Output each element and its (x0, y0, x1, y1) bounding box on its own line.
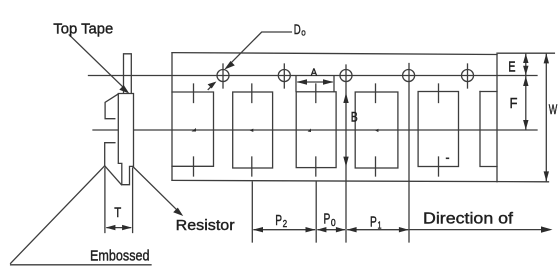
P0 arrow left head (317, 227, 327, 232)
pocket 3 center ticks (315, 84, 317, 103)
tape right edge (496, 55, 498, 182)
P2 arrow left head (253, 227, 263, 232)
P2 arrow right head (306, 227, 316, 232)
small arrowhead pointing at sprocket hole (208, 82, 217, 89)
small arrow pointing at sprocket hole (208, 86, 211, 89)
pocket 5 (418, 92, 458, 167)
pocket 2 center ticks (251, 84, 253, 103)
carrier tape side-view body with embossed pocket (118, 94, 133, 185)
dimension A extension lines (295, 77, 297, 92)
pocket 1 center ticks (193, 84, 195, 103)
pocket 5 part mark (446, 158, 449, 160)
tape top edge (172, 53, 497, 55)
pocket centerline (93, 129, 537, 131)
D0 leader arrowhead (224, 61, 235, 70)
dimension P2 arrow line (254, 229, 315, 231)
sprocket hole 2 (278, 70, 290, 82)
A arrow right head (323, 79, 334, 85)
tape top edge extension (497, 52, 554, 54)
dimension P1 arrow line (348, 229, 408, 231)
F arrow bottom head (523, 120, 528, 130)
svg-text:Embossed: Embossed (90, 247, 150, 264)
bottom extension line pocket2 center (251, 182, 253, 242)
B arrow top head (343, 93, 348, 103)
sprocket hole 5 (462, 70, 474, 82)
pocket 4 part mark (375, 129, 378, 132)
dimension F line (525, 76, 527, 130)
B arrow bottom head (343, 157, 348, 167)
upper bracket on side view (105, 94, 118, 119)
svg-text:F: F (510, 95, 518, 112)
D0 leader line (228, 32, 291, 66)
svg-text:Direction of: Direction of (423, 211, 514, 228)
W arrow bottom head (544, 171, 549, 181)
embossed leader underline (11, 264, 151, 266)
pocket 4 center ticks (375, 84, 377, 103)
svg-text:D: D (294, 22, 301, 37)
P1 arrow right head (399, 227, 409, 232)
svg-text:E: E (508, 58, 515, 75)
sprocket hole 3 (340, 70, 352, 82)
pocket 1 (172, 92, 214, 166)
svg-text:1: 1 (378, 221, 382, 232)
svg-text:B: B (351, 109, 358, 125)
direction-of-feed arrowhead (541, 226, 553, 232)
P0 arrow right head (336, 227, 346, 232)
svg-text:Top Tape: Top Tape (53, 20, 113, 37)
T arrow left head (106, 225, 116, 230)
dimension W line (545, 53, 547, 181)
sprocket centerline (89, 75, 538, 77)
svg-text:A: A (311, 67, 317, 79)
dimension T extension lines (104, 168, 106, 233)
E arrow top head (523, 54, 528, 64)
embossed leader diagonal (11, 166, 105, 263)
svg-text:Resistor: Resistor (176, 217, 235, 234)
dimension E line (525, 54, 527, 75)
svg-text:2: 2 (283, 219, 288, 230)
dimension B line (345, 65, 347, 242)
W arrow top head (544, 53, 549, 63)
tape bottom edge (172, 180, 549, 181)
pocket 4 (355, 92, 398, 168)
dimension T arrow line (107, 227, 131, 229)
svg-text:o: o (301, 27, 306, 38)
pocket 2 part mark (249, 129, 253, 132)
sprocket hole 1 (217, 70, 229, 82)
F arrow top head (523, 76, 528, 86)
svg-text:0: 0 (331, 218, 336, 229)
direction-of-feed arrow line (409, 229, 549, 231)
pocket 5 center ticks (438, 84, 440, 103)
resistor leader line (133, 167, 179, 213)
P1 arrow left head (347, 227, 357, 232)
pocket 3 part mark (308, 129, 311, 133)
dimension P0 arrow line (318, 229, 344, 231)
resistor leader arrowhead (173, 208, 183, 216)
pocket 6 partial (480, 92, 497, 167)
pocket 1 part mark (192, 128, 197, 132)
T arrow right head (122, 225, 132, 230)
A arrow left head (297, 79, 308, 85)
diagonal to pocket corner (105, 166, 122, 185)
tape left edge (171, 53, 173, 181)
pocket 3 (296, 92, 336, 168)
lower bracket on side view (105, 143, 115, 166)
svg-text:P: P (275, 212, 282, 229)
bottom extension line pocket3 center (315, 182, 317, 242)
top tape leader line (69, 35, 125, 89)
E arrow bottom head (523, 66, 528, 76)
svg-text:P: P (324, 210, 331, 227)
top tape strip (side view) (124, 54, 132, 94)
svg-text:P: P (370, 214, 377, 231)
pocket 2 (233, 92, 273, 168)
svg-text:W: W (549, 101, 558, 117)
sprocket hole 4 (403, 70, 415, 82)
dimension A arrow line (298, 81, 332, 83)
top tape leader arrowhead (119, 85, 129, 93)
svg-text:T: T (114, 204, 121, 220)
